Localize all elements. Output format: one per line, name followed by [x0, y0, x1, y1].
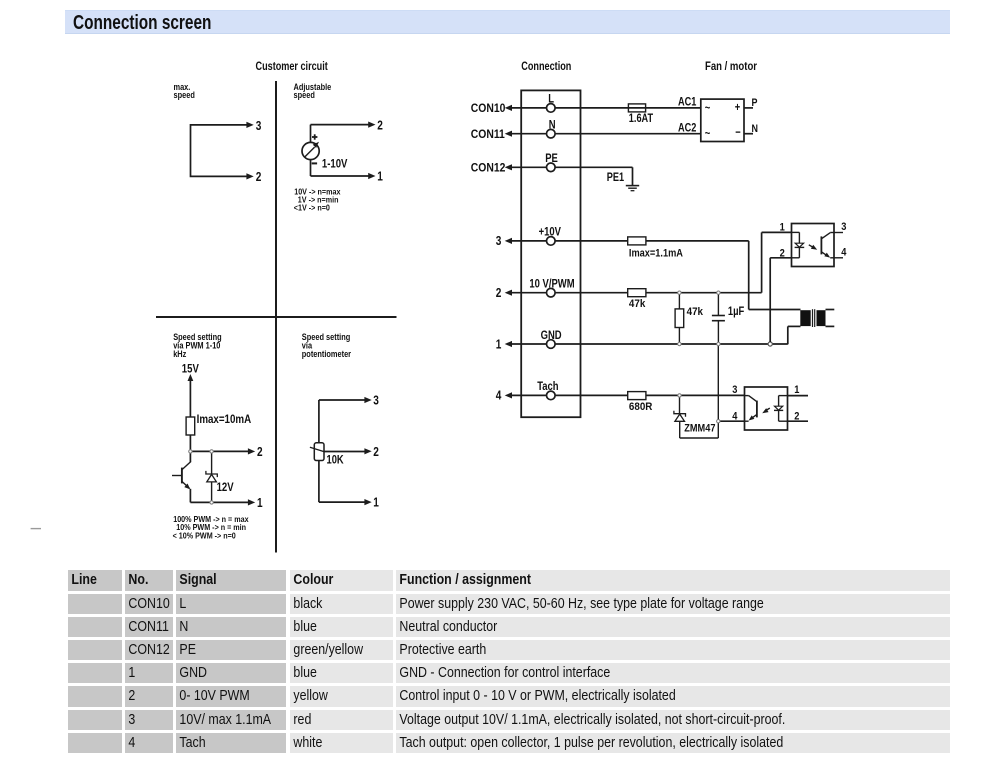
svg-text:1: 1 [794, 384, 799, 396]
svg-text:+: + [735, 101, 740, 114]
svg-text:speed: speed [294, 89, 315, 100]
svg-text:ZMM47: ZMM47 [684, 423, 715, 435]
svg-text:1µF: 1µF [728, 305, 745, 318]
svg-text:1: 1 [780, 222, 785, 234]
svg-text:2: 2 [377, 119, 383, 132]
svg-text:2: 2 [496, 287, 502, 300]
svg-text:N: N [752, 123, 758, 135]
svg-text:3: 3 [496, 235, 502, 248]
svg-text:3: 3 [841, 221, 846, 233]
svg-text:2: 2 [256, 171, 262, 184]
svg-text:CON11: CON11 [471, 128, 505, 141]
svg-text:47k: 47k [629, 297, 645, 310]
svg-text:CON10: CON10 [471, 103, 506, 116]
svg-text:AC2: AC2 [678, 123, 697, 135]
svg-text:4: 4 [496, 390, 502, 403]
svg-text:< 10% PWM -> n=0: < 10% PWM -> n=0 [173, 531, 237, 541]
svg-text:2: 2 [257, 446, 263, 459]
svg-text:−: − [735, 126, 740, 139]
svg-text:1.6AT: 1.6AT [629, 113, 654, 125]
svg-text:1-10V: 1-10V [322, 158, 348, 171]
svg-text:PE1: PE1 [607, 172, 625, 184]
svg-text:Imax=10mA: Imax=10mA [197, 413, 252, 426]
svg-text:47k: 47k [687, 305, 703, 318]
svg-text:2: 2 [373, 446, 379, 459]
svg-text:~: ~ [705, 127, 710, 140]
svg-text:3: 3 [732, 384, 737, 396]
svg-text:<1V -> n=0: <1V -> n=0 [294, 203, 331, 213]
svg-text:1: 1 [257, 497, 263, 510]
svg-text:kHz: kHz [173, 348, 186, 359]
svg-text:12V: 12V [217, 481, 235, 494]
svg-text:10K: 10K [327, 453, 344, 466]
svg-text:Imax=1.1mA: Imax=1.1mA [629, 248, 683, 260]
svg-text:4: 4 [841, 247, 846, 259]
svg-text:L: L [548, 93, 554, 106]
svg-text:2: 2 [780, 248, 785, 260]
svg-text:+10V: +10V [539, 226, 562, 239]
svg-text:Connection: Connection [521, 61, 571, 73]
svg-text:680R: 680R [629, 401, 653, 414]
svg-text:4: 4 [732, 410, 737, 422]
svg-text:~: ~ [705, 101, 710, 114]
svg-text:10 V/PWM: 10 V/PWM [529, 278, 574, 291]
svg-text:N: N [549, 119, 556, 132]
svg-text:2: 2 [794, 410, 799, 422]
svg-text:speed: speed [174, 89, 195, 100]
svg-text:1: 1 [377, 171, 383, 184]
svg-text:PE: PE [545, 152, 558, 165]
svg-text:Fan / motor: Fan / motor [705, 60, 757, 73]
svg-text:Tach: Tach [537, 380, 558, 393]
svg-text:1: 1 [373, 497, 379, 510]
svg-text:3: 3 [373, 395, 379, 408]
svg-text:GND: GND [541, 329, 562, 342]
svg-text:15V: 15V [182, 362, 200, 375]
svg-text:Customer circuit: Customer circuit [256, 61, 329, 73]
svg-text:AC1: AC1 [678, 97, 697, 109]
svg-text:CON12: CON12 [471, 162, 506, 175]
svg-text:1: 1 [496, 338, 502, 351]
svg-text:3: 3 [256, 120, 262, 133]
svg-text:P: P [752, 97, 758, 109]
svg-text:potentiometer: potentiometer [302, 348, 352, 359]
